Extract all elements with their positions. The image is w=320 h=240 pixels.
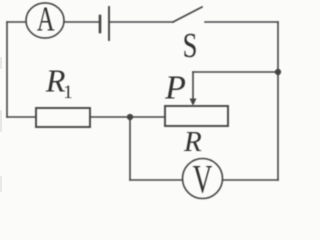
voltmeter V circle — [183, 159, 223, 199]
wire left vertical — [6, 22, 8, 117]
wire bottom right — [223, 179, 278, 181]
wiper branch horizontal — [193, 71, 278, 73]
junction dot middle — [127, 114, 133, 120]
battery cell long plate — [108, 7, 110, 40]
svg-text:P: P — [164, 69, 186, 106]
wiper arrowhead — [190, 99, 197, 107]
wire ammeter to battery — [64, 21, 99, 23]
wire switch to top-right corner — [205, 21, 278, 23]
wire left to R1 — [7, 116, 36, 118]
wire junction vertical down — [129, 117, 131, 180]
wire top-left horizontal — [7, 21, 26, 23]
ammeter A circle — [26, 3, 64, 38]
svg-text:S: S — [183, 25, 198, 64]
svg-text:R: R — [183, 126, 202, 158]
switch S lever — [173, 7, 202, 22]
svg-text:1: 1 — [63, 82, 73, 103]
svg-text:A: A — [37, 0, 55, 39]
wire R1 to junction to rheostat — [90, 116, 165, 118]
wire right vertical — [277, 22, 279, 180]
wire battery to switch — [110, 21, 173, 23]
wiper vertical — [192, 72, 194, 100]
rheostat R box — [165, 106, 228, 126]
battery cell short plate — [99, 16, 102, 32]
resistor R1 box — [36, 108, 90, 127]
svg-text:V: V — [193, 158, 213, 201]
wire bottom left of voltmeter — [130, 179, 182, 181]
scan smudges left edge — [0, 57, 2, 192]
junction dot right — [275, 69, 281, 75]
